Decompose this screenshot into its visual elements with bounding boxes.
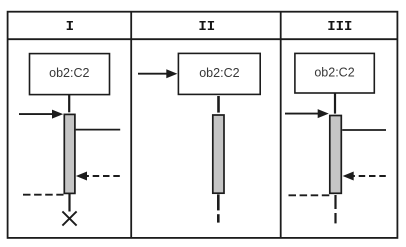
- panel I: incoming call arrow shaft: [19, 113, 54, 115]
- column separator 2: [280, 11, 282, 239]
- header separator line: [7, 38, 398, 40]
- panel I: destruction X stroke 2: [62, 211, 76, 225]
- panel II: object box ob2:C2: [178, 53, 260, 94]
- panel III: activation bar: [330, 116, 342, 194]
- panel I: lifeline segment below bar: [68, 194, 70, 212]
- column separator 1: [130, 11, 132, 239]
- svg-text:III: III: [327, 19, 352, 35]
- svg-text:I: I: [66, 19, 74, 35]
- panel II: dashed lifeline below bar dash 1: [217, 194, 220, 210]
- panel III: incoming call arrowhead: [318, 109, 329, 118]
- panel II: incoming call arrow shaft: [138, 73, 168, 75]
- panel III: object box ob2:C2: [295, 53, 374, 93]
- panel III: dashed lifeline below bar dash 2: [334, 213, 336, 223]
- panel I: incoming call arrowhead: [52, 110, 63, 119]
- panel I: object box ob2:C2: [30, 54, 110, 95]
- svg-text:ob2:C2: ob2:C2: [199, 66, 239, 80]
- panel II: dashed lifeline below bar dash 2: [217, 214, 220, 222]
- panel I: outgoing message line to right: [76, 129, 121, 131]
- panel I: lifeline segment below box: [68, 95, 70, 112]
- panel II: incoming call arrowhead: [166, 69, 177, 78]
- panel III: lifeline segment below box: [334, 93, 336, 114]
- svg-text:II: II: [198, 19, 215, 35]
- panel I: destruction X stroke 1: [62, 211, 76, 225]
- panel II: activation bar: [213, 115, 224, 193]
- svg-text:ob2:C2: ob2:C2: [49, 66, 89, 80]
- panel I: dashed return arrow shaft from right: [82, 175, 120, 177]
- panel III: dashed return arrow shaft from right: [349, 175, 386, 177]
- panel II: dashed lifeline segment below box: [217, 96, 220, 113]
- panel III: dashed message line bottom left: [289, 194, 330, 196]
- panel III: dashed return arrowhead: [343, 172, 354, 181]
- panel I: dashed return arrowhead: [76, 172, 87, 181]
- panel III: incoming call arrow shaft: [285, 113, 320, 115]
- panel I: activation bar: [64, 114, 75, 193]
- svg-text:ob2:C2: ob2:C2: [314, 66, 354, 80]
- panel III: outgoing message line to right: [342, 129, 386, 131]
- panel I: dashed message line bottom left: [23, 194, 64, 196]
- panel III: dashed lifeline below bar dash 1: [334, 195, 336, 209]
